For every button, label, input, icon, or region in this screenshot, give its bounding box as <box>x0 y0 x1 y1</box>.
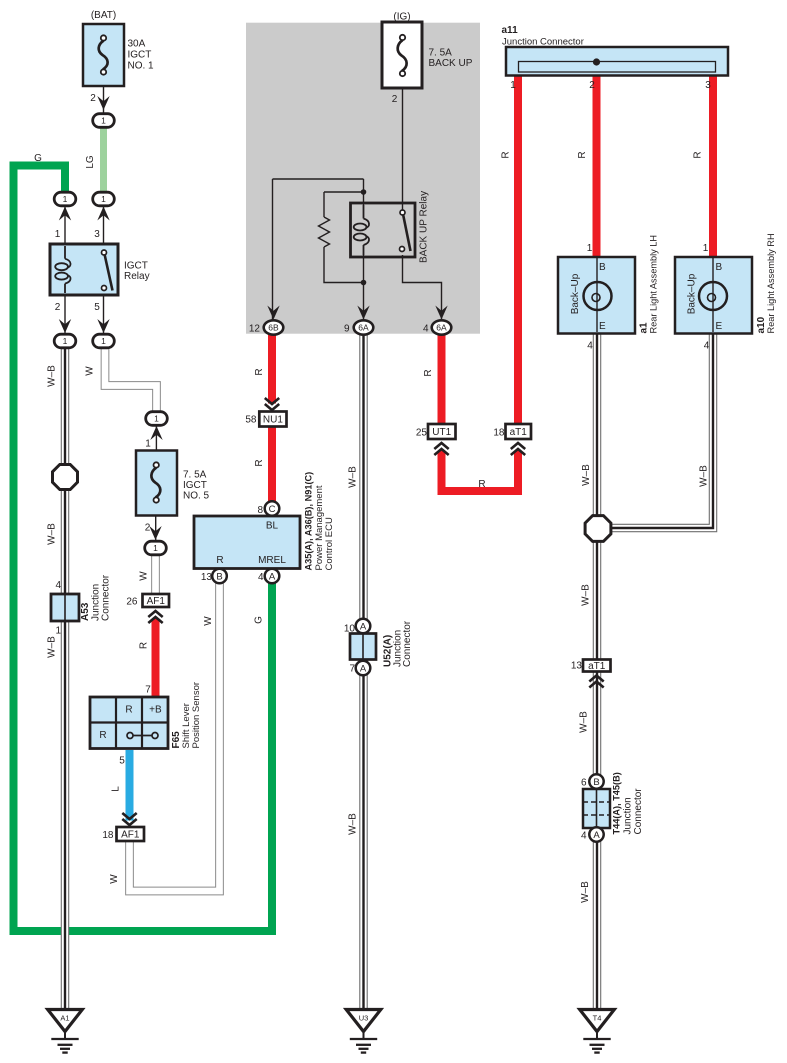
svg-text:G: G <box>34 153 42 164</box>
svg-text:1: 1 <box>510 80 516 91</box>
svg-text:R: R <box>478 479 485 490</box>
svg-text:NU1: NU1 <box>263 415 283 426</box>
svg-text:Junction Connector: Junction Connector <box>502 37 584 48</box>
svg-text:7: 7 <box>145 685 151 696</box>
svg-text:4: 4 <box>581 831 587 842</box>
svg-text:A35(A), A36(B), N91(C): A35(A), A36(B), N91(C) <box>304 472 314 571</box>
svg-text:4: 4 <box>258 572 264 583</box>
svg-text:(BAT): (BAT) <box>91 10 116 21</box>
svg-text:6: 6 <box>581 778 587 789</box>
svg-text:Control ECU: Control ECU <box>324 517 335 570</box>
svg-text:LG: LG <box>85 155 96 169</box>
svg-text:2: 2 <box>145 523 151 534</box>
svg-text:2: 2 <box>392 94 398 105</box>
svg-text:B: B <box>593 777 599 788</box>
svg-text:12: 12 <box>249 324 261 335</box>
svg-text:W: W <box>109 874 120 884</box>
svg-text:1: 1 <box>703 243 709 254</box>
svg-text:W–B: W–B <box>581 464 592 486</box>
svg-text:1: 1 <box>154 414 159 424</box>
svg-text:R: R <box>254 459 265 466</box>
svg-text:IGCT: IGCT <box>183 480 207 491</box>
svg-text:1: 1 <box>145 439 151 450</box>
svg-text:1: 1 <box>101 336 106 346</box>
svg-text:3: 3 <box>94 229 100 240</box>
svg-text:AF1: AF1 <box>121 830 140 841</box>
svg-text:10: 10 <box>344 624 356 635</box>
svg-text:NO. 1: NO. 1 <box>128 61 155 72</box>
svg-text:5: 5 <box>94 302 100 313</box>
svg-text:(IG): (IG) <box>393 12 410 23</box>
svg-text:MREL: MREL <box>258 555 286 566</box>
svg-text:7. 5A: 7. 5A <box>183 470 207 481</box>
svg-text:1: 1 <box>55 229 61 240</box>
svg-text:R: R <box>99 730 106 741</box>
svg-text:4: 4 <box>423 324 429 335</box>
svg-text:1: 1 <box>101 194 106 204</box>
svg-text:1: 1 <box>587 243 593 254</box>
svg-text:6B: 6B <box>268 323 279 333</box>
svg-text:Rear Light Assembly RH: Rear Light Assembly RH <box>766 233 776 333</box>
svg-text:Back–Up: Back–Up <box>687 273 698 314</box>
svg-text:L: L <box>110 786 121 792</box>
svg-text:R: R <box>501 151 512 158</box>
svg-text:1: 1 <box>63 194 68 204</box>
svg-text:R: R <box>577 151 588 158</box>
svg-text:2: 2 <box>55 302 61 313</box>
svg-text:IGCT: IGCT <box>128 50 152 61</box>
svg-text:Rear Light Assembly LH: Rear Light Assembly LH <box>649 235 659 334</box>
svg-text:BACK UP: BACK UP <box>429 58 473 69</box>
svg-text:W–B: W–B <box>348 813 359 835</box>
svg-text:30A: 30A <box>128 39 146 50</box>
svg-text:1: 1 <box>101 116 106 126</box>
svg-text:18: 18 <box>493 428 505 439</box>
svg-text:+B: +B <box>149 705 162 716</box>
svg-text:W–B: W–B <box>579 711 590 733</box>
svg-text:U3: U3 <box>359 1014 369 1023</box>
svg-text:A: A <box>593 830 600 841</box>
svg-text:1: 1 <box>153 543 158 553</box>
svg-text:Relay: Relay <box>124 271 150 282</box>
svg-text:Connector: Connector <box>101 574 112 621</box>
svg-text:A53: A53 <box>80 602 91 621</box>
svg-text:25: 25 <box>416 428 428 439</box>
svg-text:B: B <box>716 262 723 273</box>
svg-text:UT1: UT1 <box>432 427 451 438</box>
svg-text:7. 5A: 7. 5A <box>429 48 453 59</box>
svg-text:18: 18 <box>102 830 114 841</box>
svg-text:T4: T4 <box>593 1014 602 1023</box>
svg-text:9: 9 <box>344 324 350 335</box>
svg-text:A: A <box>360 663 367 674</box>
svg-text:R: R <box>216 555 223 566</box>
svg-text:13: 13 <box>201 572 213 583</box>
svg-text:5: 5 <box>119 756 125 767</box>
svg-text:T44(A), T45(B): T44(A), T45(B) <box>612 772 622 834</box>
svg-text:Position Sensor: Position Sensor <box>191 682 202 749</box>
svg-text:6A: 6A <box>358 323 369 333</box>
svg-text:A: A <box>269 571 276 582</box>
svg-text:A: A <box>360 621 367 632</box>
svg-text:E: E <box>599 321 606 332</box>
svg-text:4: 4 <box>704 341 710 352</box>
svg-text:C: C <box>269 504 276 515</box>
svg-text:R: R <box>139 642 150 649</box>
svg-text:A1: A1 <box>60 1014 69 1023</box>
svg-text:B: B <box>216 571 222 582</box>
svg-text:Connector: Connector <box>402 620 413 667</box>
svg-text:R: R <box>125 705 132 716</box>
svg-text:BACK UP Relay: BACK UP Relay <box>419 191 430 263</box>
svg-text:G: G <box>254 616 265 624</box>
svg-text:2: 2 <box>90 93 96 104</box>
svg-text:aT1: aT1 <box>510 427 528 438</box>
svg-text:W–B: W–B <box>47 365 58 387</box>
svg-text:Junction: Junction <box>623 797 634 834</box>
svg-text:R: R <box>423 369 434 376</box>
svg-text:E: E <box>716 321 723 332</box>
svg-text:R: R <box>693 151 704 158</box>
svg-text:a11: a11 <box>502 25 519 36</box>
svg-text:Back–Up: Back–Up <box>570 273 581 314</box>
svg-text:13: 13 <box>571 661 583 672</box>
svg-text:W–B: W–B <box>47 636 58 658</box>
svg-text:W–B: W–B <box>581 584 592 606</box>
svg-text:7: 7 <box>349 664 355 675</box>
svg-text:W–B: W–B <box>699 465 710 487</box>
svg-text:BL: BL <box>266 521 279 532</box>
svg-text:W: W <box>139 571 150 581</box>
svg-text:3: 3 <box>705 80 711 91</box>
svg-text:4: 4 <box>587 341 593 352</box>
svg-text:Connector: Connector <box>633 788 644 835</box>
svg-text:4: 4 <box>55 580 61 591</box>
svg-text:W: W <box>85 366 96 376</box>
svg-text:aT1: aT1 <box>588 661 606 672</box>
svg-text:NO. 5: NO. 5 <box>183 491 210 502</box>
svg-text:2: 2 <box>589 80 595 91</box>
svg-text:AF1: AF1 <box>147 596 166 607</box>
svg-text:8: 8 <box>257 505 263 516</box>
svg-text:W–B: W–B <box>580 881 591 903</box>
svg-text:R: R <box>254 368 265 375</box>
svg-text:W–B: W–B <box>348 466 359 488</box>
svg-text:W: W <box>203 616 214 626</box>
svg-text:1: 1 <box>63 336 68 346</box>
svg-text:B: B <box>599 262 606 273</box>
svg-text:26: 26 <box>126 597 138 608</box>
svg-text:IGCT: IGCT <box>124 261 148 272</box>
svg-text:1: 1 <box>55 626 61 637</box>
svg-text:58: 58 <box>245 415 257 426</box>
svg-text:6A: 6A <box>436 323 447 333</box>
svg-text:W–B: W–B <box>47 523 58 545</box>
